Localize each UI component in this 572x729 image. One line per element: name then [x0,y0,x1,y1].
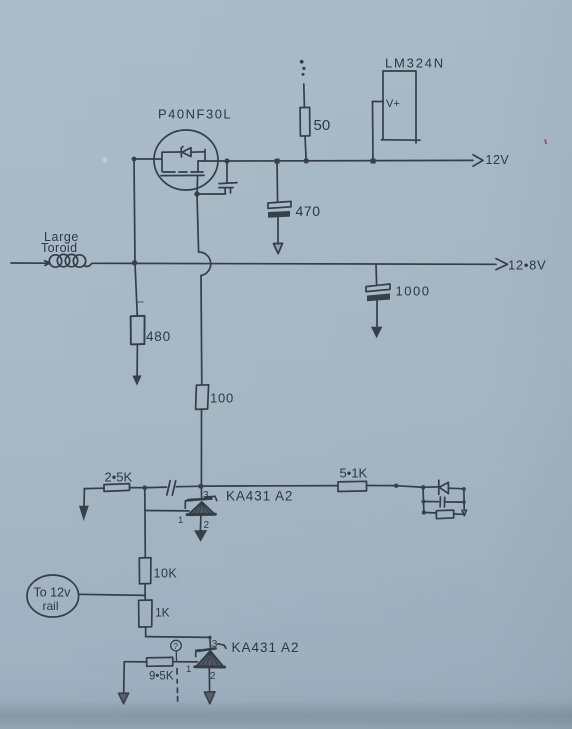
svg-text:To 12v: To 12v [34,586,72,600]
svg-text:LM324N: LM324N [385,56,445,71]
svg-text:1: 1 [178,515,183,526]
svg-text:100: 100 [210,391,234,406]
svg-text:10K: 10K [154,567,178,581]
svg-text:1K: 1K [155,606,170,620]
svg-text:KA431 A2: KA431 A2 [232,640,300,655]
svg-text:12•8V: 12•8V [508,258,546,273]
svg-text:9•5K: 9•5K [149,671,174,683]
svg-text:5•1K: 5•1K [340,466,368,481]
svg-text:?: ? [173,641,178,651]
svg-text:1: 1 [186,664,191,675]
svg-text:50: 50 [314,117,331,134]
svg-text:3: 3 [203,490,209,501]
svg-text:KA431 A2: KA431 A2 [226,489,293,504]
svg-text:1000: 1000 [396,284,431,299]
svg-text:P40NF30L: P40NF30L [158,107,232,122]
svg-text:470: 470 [296,203,321,219]
svg-text:rail: rail [43,599,59,613]
svg-text:12V: 12V [486,153,510,167]
svg-text:480: 480 [146,329,171,344]
svg-text:2•5K: 2•5K [105,470,133,485]
svg-text:2: 2 [210,671,216,682]
svg-text:3: 3 [212,639,218,650]
svg-text:2: 2 [204,520,210,531]
svg-text:V+: V+ [386,98,400,110]
svg-text:Toroid: Toroid [41,241,77,255]
